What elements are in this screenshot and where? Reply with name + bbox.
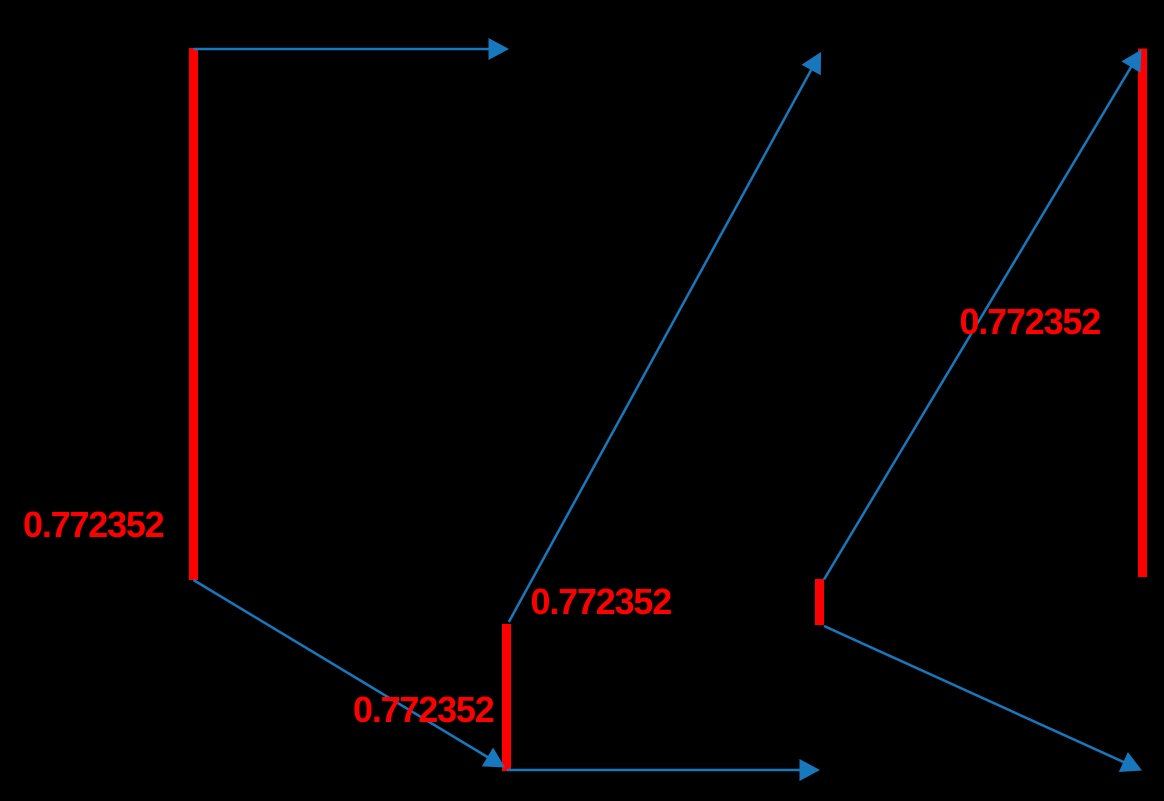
svg-text:0.772352: 0.772352 (960, 301, 1101, 342)
arrow A1 horizontal top-left (194, 38, 510, 60)
red segment R2 (502, 624, 511, 771)
red segment R3 (815, 579, 824, 625)
arrow A2 diagonal down-right from R1 bottom (194, 580, 506, 768)
arrow A5 diagonal up-right from R3 top (824, 50, 1142, 580)
arrow A4 horizontal bottom-middle (507, 759, 820, 781)
svg-text:0.772352: 0.772352 (353, 689, 494, 730)
svg-text:0.772352: 0.772352 (531, 581, 672, 622)
svg-text:0.772352: 0.772352 (23, 504, 164, 545)
arrow A3 diagonal up-right from R2 top (509, 52, 821, 622)
red segment R1 (189, 48, 198, 580)
red segment R4 (1138, 49, 1147, 578)
arrow A6 diagonal down-right from R3 bottom (824, 626, 1142, 772)
